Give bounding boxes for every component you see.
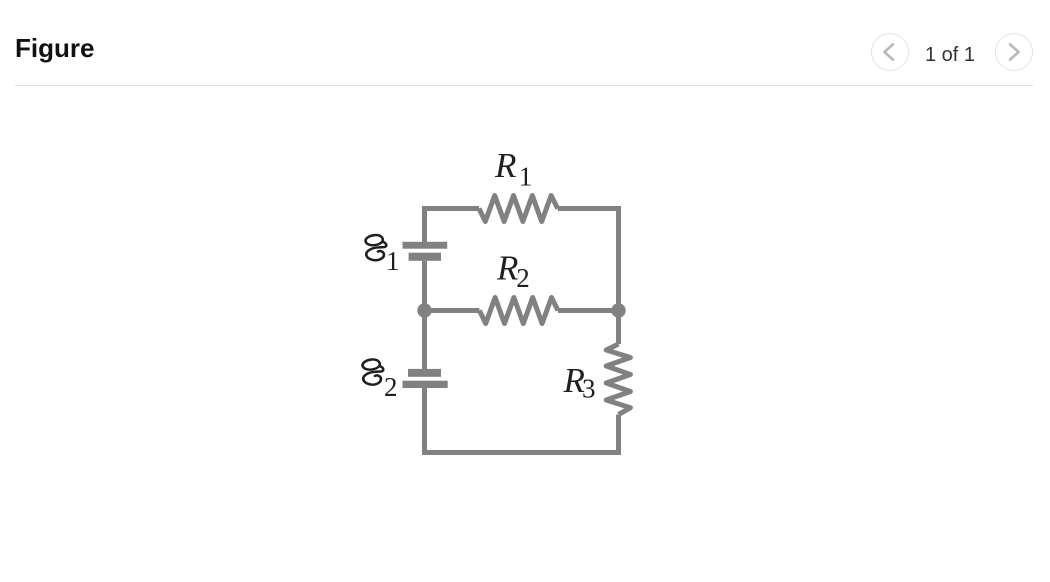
svg-text:1: 1	[386, 246, 400, 276]
resistor R1	[479, 196, 558, 222]
resistor R3	[606, 344, 630, 415]
svg-text:2: 2	[516, 263, 530, 293]
battery E2 long plate	[403, 381, 448, 388]
svg-text:R: R	[496, 248, 518, 287]
pager prev button	[871, 33, 909, 71]
wire: top-left corner to battery E1 top plate, and top wire left segment	[425, 209, 480, 243]
svg-text:R: R	[494, 146, 516, 185]
wire: middle wire right segment	[558, 308, 619, 313]
label EMF E1 script-E glyph	[366, 235, 387, 260]
pager text "1 of 1"	[925, 45, 975, 65]
battery E2 short plate	[408, 369, 441, 377]
node junction dot right	[611, 303, 625, 317]
battery E1 short plate	[409, 253, 441, 261]
wire: middle wire left segment	[425, 308, 480, 313]
header title "Figure"	[15, 35, 94, 61]
wire: middle node down to battery E2 top plate	[422, 311, 427, 370]
wire: top wire right segment + right side down to R3	[558, 209, 619, 345]
pager next button	[995, 33, 1033, 71]
header divider line	[15, 85, 1033, 87]
svg-text:1: 1	[519, 162, 533, 192]
resistor R2	[479, 298, 558, 324]
node junction dot left	[417, 303, 431, 317]
svg-text:2: 2	[384, 372, 398, 402]
label EMF E2 script-E glyph	[363, 359, 384, 384]
svg-text:3: 3	[582, 374, 596, 404]
battery E1 long plate	[403, 242, 448, 249]
wire: battery E1 bottom plate down to middle node	[422, 261, 427, 311]
wire: right side below R3, bottom wire, left side up to battery E2 bottom plate	[425, 388, 619, 453]
